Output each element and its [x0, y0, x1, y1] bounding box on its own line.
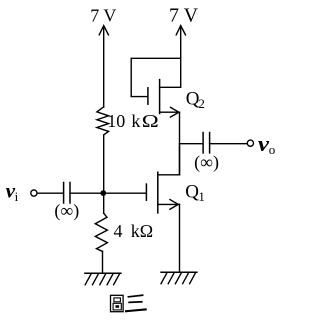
- power supply arrow left 7V: [99, 26, 109, 107]
- transistor Q2: [148, 80, 181, 118]
- svg-text:kΩ: kΩ: [131, 221, 153, 241]
- svg-text:i: i: [15, 189, 19, 204]
- wire capacitor to gate of Q1: [70, 192, 146, 194]
- caption figure three (CJK glyphs drawn as vector strokes): [111, 295, 146, 311]
- wire input terminal to capacitor: [37, 192, 63, 194]
- wire gate-drain loop of Q2: [131, 58, 181, 96]
- capacitor C1 (input, infinity): [64, 183, 70, 204]
- svg-text:o: o: [269, 142, 276, 157]
- wire output node to capacitor: [180, 143, 203, 145]
- svg-text:Q: Q: [185, 182, 199, 203]
- wire 4k to ground: [102, 251, 104, 273]
- wire capacitor to output terminal: [210, 143, 248, 145]
- wire left rail resistor to junction: [103, 135, 105, 213]
- resistor R 4k zigzag: [95, 213, 107, 251]
- ground (right): [161, 272, 197, 283]
- ground (left): [85, 273, 121, 284]
- svg-text:Ω: Ω: [142, 112, 159, 131]
- resistor R 10k zigzag: [97, 107, 109, 135]
- transistor Q1: [146, 172, 179, 213]
- power supply arrow right 7V: [176, 26, 186, 88]
- svg-text:2: 2: [198, 96, 205, 111]
- input terminal circle: [31, 190, 37, 196]
- svg-text:(∞): (∞): [54, 200, 79, 221]
- svg-text:1: 1: [198, 189, 205, 204]
- capacitor C2 (output, infinity): [203, 133, 210, 153]
- svg-text:10: 10: [107, 111, 125, 131]
- svg-text:(∞): (∞): [194, 152, 219, 173]
- wire Q2 source to output node: [179, 112, 181, 175]
- svg-text:7 V: 7 V: [90, 6, 116, 26]
- svg-text:k: k: [131, 111, 140, 131]
- wire Q1 drain to output node: [179, 144, 181, 175]
- svg-text:7 V: 7 V: [169, 5, 199, 27]
- wire Q1 source to ground: [179, 204, 181, 272]
- svg-text:4: 4: [114, 221, 123, 241]
- output terminal circle: [247, 140, 253, 146]
- node junction dot: [100, 190, 106, 196]
